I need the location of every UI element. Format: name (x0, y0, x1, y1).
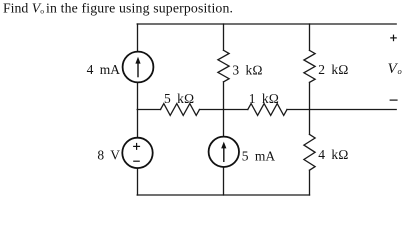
svg-text:5 kΩ: 5 kΩ (164, 91, 194, 106)
svg-text:5 mA: 5 mA (242, 148, 276, 163)
svg-text:o: o (398, 66, 402, 76)
svg-text:3 kΩ: 3 kΩ (232, 62, 262, 77)
svg-text:8 V: 8 V (97, 148, 120, 163)
svg-text:2 kΩ: 2 kΩ (318, 62, 348, 77)
svg-text:in the figure using superposit: in the figure using superposition. (46, 0, 233, 15)
svg-text:1 kΩ: 1 kΩ (249, 91, 279, 106)
svg-text:Find Vo: Find Vo (3, 0, 44, 15)
svg-text:4 kΩ: 4 kΩ (318, 147, 348, 162)
svg-text:4 mA: 4 mA (87, 62, 121, 77)
